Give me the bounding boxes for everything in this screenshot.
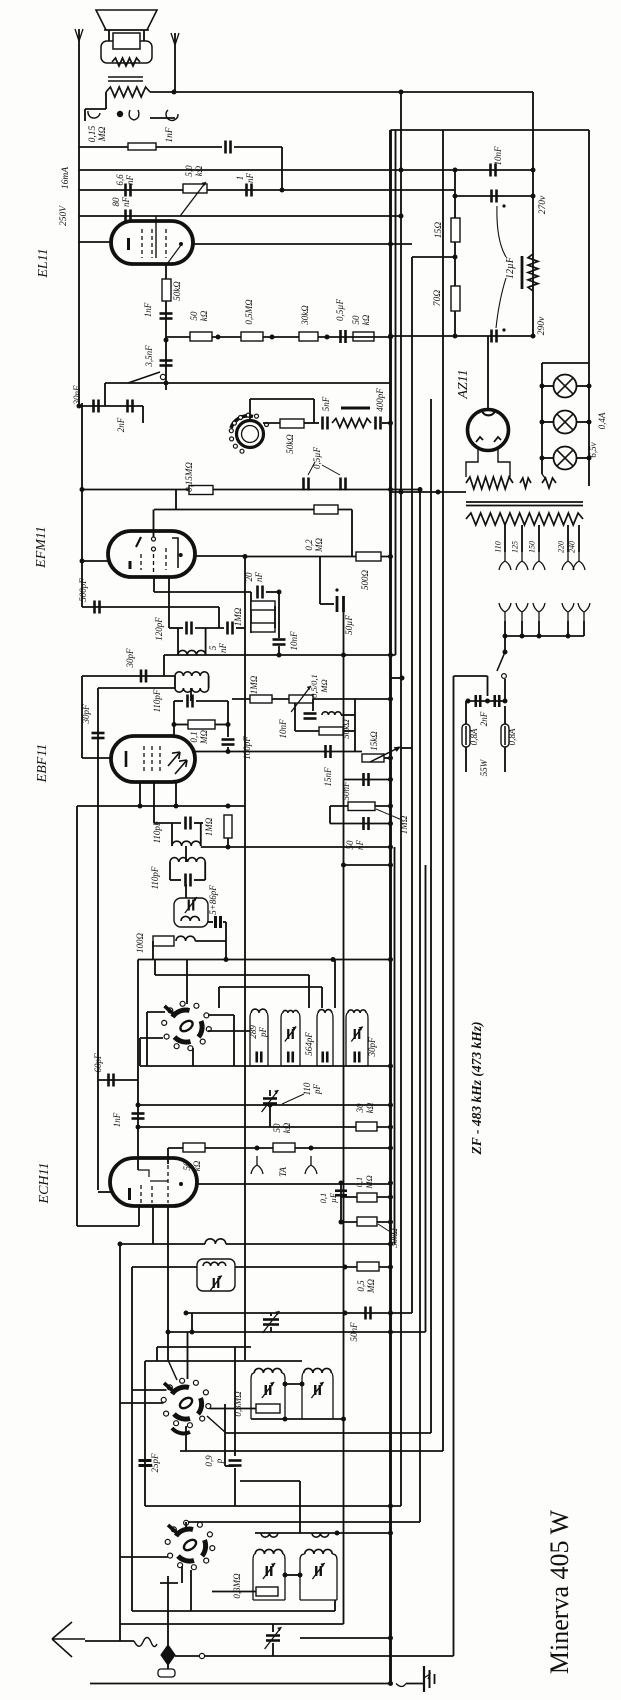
magic eye target outer [237, 421, 264, 448]
wire 50uF branch [319, 557, 321, 605]
inductor IF2 coil [170, 858, 205, 862]
switch wafer 1 contact 9 [194, 1003, 199, 1008]
tube ECH11 envelope [110, 1158, 197, 1206]
switch wafer 1 rotor arc 1 [173, 1010, 190, 1017]
svg-text:0,2: 0,2 [304, 539, 314, 551]
magic eye dot 1 [240, 449, 244, 453]
wire 235 drop [234, 1347, 236, 1456]
capacitor osc coil box 1 trimmer [266, 1385, 271, 1395]
svg-text:2nF: 2nF [479, 711, 489, 726]
node 1222 rail [388, 1220, 393, 1225]
switch wafer 2 contact 2 [200, 1416, 205, 1421]
node 1244 rail [388, 1242, 393, 1247]
svg-text:5nF: 5nF [321, 396, 331, 411]
node nfb 327 [325, 335, 330, 340]
switch wafer 1 rotor tick [165, 1006, 174, 1014]
svg-text:564pF: 564pF [304, 1032, 314, 1056]
node 270V right [531, 194, 536, 199]
wire IF4 stem [190, 688, 192, 701]
resistor 100 Ohm [153, 936, 174, 946]
node 1197 rail [388, 1195, 393, 1200]
wire EBF pin 2 [153, 782, 155, 823]
inductor osc tank [203, 1262, 226, 1266]
svg-text:MΩ: MΩ [364, 1175, 374, 1189]
svg-text:1nF: 1nF [143, 302, 153, 317]
resistor 1MOhm if vert [224, 815, 232, 838]
wire 0,9p lower [234, 1468, 236, 1506]
wire lamp 2 right [577, 421, 590, 423]
svg-text:110: 110 [494, 541, 503, 552]
wire row 1267 [132, 1266, 197, 1268]
EL11 grid dash 1 [141, 229, 143, 258]
wire 50nF row [344, 779, 391, 781]
node selector 539 [537, 634, 542, 639]
wire left rail EFM segment [81, 403, 83, 607]
wire wafer2 bottom diag [207, 1416, 226, 1433]
wire IF1 cap right [194, 822, 203, 824]
wire ant coil row [255, 1532, 391, 1534]
node mains a [466, 699, 471, 704]
capacitor 100pF [222, 740, 235, 745]
svg-text:EFM11: EFM11 [34, 526, 49, 569]
svg-text:150: 150 [528, 541, 537, 553]
capacitor 12uF lower [492, 330, 497, 343]
node 1506 rail [388, 1504, 393, 1509]
wire ant box1 bottom [253, 1599, 285, 1601]
svg-text:MΩ: MΩ [199, 730, 209, 745]
wire corner down to 5nF row [313, 399, 315, 423]
switch wafer 2 rotor arc 3 [174, 1414, 190, 1419]
wire IF2 stem [185, 846, 187, 862]
switch mains lever [497, 652, 505, 671]
switch wafer 1 rotor arc 2 [199, 1021, 203, 1037]
wire wafer1 bottom lead [192, 1048, 194, 1066]
filter choke core bar [521, 256, 524, 289]
wire 1M pair right [274, 606, 276, 628]
wire lamp top [542, 362, 589, 364]
connector tap fork 240 [573, 552, 585, 570]
wire ant box2 bottom [300, 1599, 337, 1601]
svg-text:10nF: 10nF [493, 146, 503, 166]
node 1313 186 [184, 1311, 189, 1316]
svg-text:Minerva 405 W: Minerva 405 W [545, 1509, 574, 1674]
connector tap fork 110 [499, 552, 511, 570]
plus sign 12uF upper [502, 204, 505, 207]
wire NFB row [166, 336, 391, 338]
wire jack drop [84, 109, 86, 121]
capacitor 25pF [139, 1461, 152, 1466]
arrester block [158, 1669, 175, 1677]
capacitor 30pF b [92, 733, 105, 738]
node 290V at 390 [388, 334, 393, 339]
wire antenna coil box 1 right side [283, 1554, 285, 1600]
inductor antenna coil box 1 [255, 1549, 283, 1554]
wire box bottom row [251, 1418, 343, 1420]
node 1332 rail [388, 1330, 393, 1335]
svg-text:120pF: 120pF [154, 617, 164, 641]
node 15k rail [388, 756, 393, 761]
fuse a inner bar [465, 726, 467, 745]
node nfb 272 [270, 335, 275, 340]
capacitor 10nF [491, 164, 496, 177]
resistor 50 kOhm nfb [190, 332, 212, 341]
resistor 0,5MOhm [241, 332, 263, 341]
wire selector down [504, 636, 506, 652]
wire wafer1 left lead b [140, 1037, 163, 1039]
wire left rail top segment [78, 29, 80, 406]
wire wafer3 left lead [120, 1556, 168, 1558]
wire IF1 cap row [154, 822, 181, 824]
leader 30k ech [378, 1224, 392, 1233]
resistor 0,3MOhm osc [256, 1404, 280, 1413]
wire padder third bottom [317, 1065, 333, 1067]
wire rail 431 [430, 399, 432, 1433]
wire row 1127 [138, 1126, 391, 1128]
node ta 2 [309, 1146, 314, 1151]
svg-text:nF: nF [121, 197, 131, 208]
wire det box bottom [295, 730, 319, 732]
resistor 30kOhm avc [356, 1122, 377, 1131]
EFM11 grid dash 3 [165, 548, 167, 570]
svg-text:110pF: 110pF [150, 866, 160, 889]
wire 30nF row [79, 405, 143, 407]
connector selector fork x522 [516, 603, 528, 621]
resistor 500 Ohm [356, 552, 381, 561]
EL11 cathode bar [127, 238, 130, 250]
svg-text:0,5/0,1: 0,5/0,1 [309, 674, 319, 698]
arrow speaker terminal [171, 33, 179, 45]
wire EBF cathode row [82, 757, 111, 759]
wire tap 220 [567, 525, 569, 552]
node avc left rail [80, 487, 85, 492]
svg-text:30pF: 30pF [367, 1037, 377, 1058]
wire screen drop [165, 264, 167, 340]
svg-text:0,3MΩ: 0,3MΩ [232, 1573, 242, 1599]
node lamp 1 r [587, 384, 592, 389]
wire wafer1 left drop a [146, 1012, 148, 1066]
connector TA fork 2 [305, 1156, 317, 1174]
node nfb 390 [388, 335, 393, 340]
svg-text:289: 289 [248, 1025, 258, 1039]
svg-text:MΩ: MΩ [319, 679, 329, 693]
wire tap 110 [504, 525, 506, 552]
capacitor 50uF plate 2 [342, 596, 345, 612]
wire arrester right [175, 1655, 199, 1657]
trimmer box outline [174, 898, 208, 927]
ECH11 cathode bar [128, 1188, 131, 1200]
wire row 1105 [138, 1104, 391, 1106]
svg-text:50kΩ: 50kΩ [341, 719, 351, 739]
capacitor 30pF a [141, 670, 146, 683]
node selector 522 [520, 634, 525, 639]
wire antenna coil box 1 left side [253, 1554, 255, 1600]
capacitor 10nF det [304, 714, 317, 719]
svg-text:250V: 250V [59, 205, 69, 226]
potentiometer 5,0 kOhm [183, 184, 207, 193]
node 1332 192 [190, 1330, 195, 1335]
node 678 [400, 676, 405, 681]
inductor IF3 winding [178, 650, 206, 655]
switch wafer 1 contact 6 [162, 1020, 167, 1025]
node det row rail [388, 697, 393, 702]
wire 0,1M row [341, 1196, 391, 1198]
wire rail 443 [442, 130, 444, 1451]
wire lamp 3 right [577, 457, 590, 459]
capacitor 0,1uF [335, 1191, 347, 1196]
wire det box left [294, 703, 296, 731]
wire 110pF left drop [173, 701, 175, 736]
wire ECH grid drop [137, 960, 139, 1171]
EBF11 grid dash 1 [143, 746, 145, 772]
wire row 959 [138, 959, 391, 961]
node 806 176 [174, 804, 179, 809]
capacitor 60pF [109, 1074, 114, 1087]
wire wafer1 right lead b [208, 1030, 250, 1032]
EL11 grid lead [155, 216, 157, 258]
wire IF4 left [174, 676, 176, 688]
wire row 1313 [186, 1312, 412, 1314]
wire IF2 to box [185, 884, 187, 898]
switch mains contact [502, 674, 507, 679]
node 1638 rail [388, 1636, 393, 1641]
svg-text:MΩ: MΩ [366, 1279, 376, 1294]
svg-text:30: 30 [355, 1103, 365, 1114]
svg-text:nF: nF [254, 572, 264, 583]
node 865 343 [341, 863, 346, 868]
wire ech pin k [138, 1206, 140, 1226]
capacitor 10nF efm [273, 640, 286, 645]
EL11 anode dot [179, 242, 183, 246]
EFM11 eye electrode 1 [152, 537, 156, 541]
wire 655 left corner [163, 655, 165, 676]
wire IF2 left [169, 862, 171, 880]
svg-text:kΩ: kΩ [282, 1122, 292, 1133]
wire switch to cap [504, 679, 506, 701]
capacitor trimmer if [189, 900, 194, 911]
svg-text:1: 1 [235, 176, 245, 181]
switch wafer 3 rotor arc 2 [202, 1540, 206, 1556]
capacitor 0,9pF [229, 1461, 242, 1466]
svg-text:ZF - 483 kHz (473 kHz): ZF - 483 kHz (473 kHz) [469, 1022, 484, 1156]
svg-text:110pF: 110pF [152, 689, 162, 712]
wire wafer2 left lead [132, 1389, 167, 1391]
wire AZ11 B+ stem [487, 336, 489, 410]
svg-text:125: 125 [511, 541, 520, 553]
wire padder 289pF right side [267, 1013, 268, 1066]
wire IF1 right [200, 823, 202, 846]
node 1244 120 [118, 1242, 123, 1247]
output transformer core line 1 [108, 76, 143, 78]
output transformer primary [106, 87, 150, 97]
switch wafer 3 contact 10 [207, 1532, 212, 1537]
wire coil to corner [195, 940, 226, 942]
svg-text:TA: TA [278, 1167, 288, 1177]
wire IF1 left [171, 823, 173, 846]
capacitor osc coil box 2 trimmer [315, 1385, 320, 1395]
capacitor 6,6nF [126, 184, 131, 197]
wire speaker right lead [143, 30, 145, 41]
antenna coil box 2 trimmer arrow [312, 1563, 324, 1579]
node 30nF left [77, 404, 82, 409]
capacitor 2nF mains a [476, 695, 481, 707]
capacitor 500pF [95, 601, 100, 614]
svg-text:12µF: 12µF [505, 256, 516, 279]
switch tone lever [128, 372, 160, 383]
wire lamp 1 left [542, 385, 554, 387]
svg-text:kΩ: kΩ [361, 314, 371, 325]
inductor antenna squiggle [134, 1638, 157, 1647]
wire ECH anode row [197, 1183, 391, 1185]
EFM11 cathode bar [129, 561, 132, 569]
osc coil box 1 trimmer arrow [262, 1382, 274, 1398]
wire 50nFb loop [329, 806, 331, 824]
switch wafer 3 rotor arc 3 [178, 1556, 194, 1561]
capacitor 20nF [258, 586, 263, 599]
node lamp 2 r [587, 420, 592, 425]
wire wafer1 right drop [233, 1015, 235, 1066]
switch wafer 2 rotor arc 1 [172, 1387, 189, 1394]
wire anode B+ row [245, 556, 391, 558]
svg-text:15nF: 15nF [323, 767, 333, 787]
headphone jack hook 1 [88, 111, 100, 118]
switch wafer 1 contact 5 [164, 1034, 169, 1039]
node 865 rail [388, 863, 393, 868]
node 270V left [453, 194, 458, 199]
node eye row rail [388, 421, 393, 426]
wire row 1638 [300, 1637, 391, 1639]
node anode rail [388, 1181, 393, 1186]
inductor padder 564pF [283, 1010, 298, 1013]
inductor osc feedback [205, 1239, 226, 1244]
wire wafer3 right lead [212, 1591, 256, 1593]
svg-text:240: 240 [568, 541, 577, 553]
wire rail 120 [119, 1244, 121, 1641]
node B+ rail top corner [399, 90, 404, 95]
transformer HV winding [466, 477, 513, 489]
wire tone row right [166, 382, 391, 384]
inductor det coil [322, 712, 341, 715]
node 50nFb rail [388, 821, 393, 826]
wire 30k row [341, 1221, 391, 1223]
headphone jack hook 2 [166, 110, 178, 120]
wire 50k to 5nF [304, 422, 319, 424]
node diode 228 [226, 749, 231, 754]
capacitor 5nF eye [323, 417, 328, 430]
svg-text:MΩ: MΩ [98, 126, 108, 142]
wire 10nF bottom [278, 646, 280, 655]
node 1419 343 [341, 1417, 346, 1422]
resistor 1MOhm b [251, 623, 275, 632]
wire row 1148 [168, 1147, 391, 1149]
node 290V rail [453, 334, 458, 339]
wire wafer2 right link [225, 1465, 235, 1467]
wire fuse2 bottom [504, 747, 506, 772]
capacitor 1nF anode [247, 184, 252, 197]
wire 1347 drop [156, 1347, 158, 1361]
switch wafer 3 center oval [182, 1538, 198, 1553]
wire antenna coil box 2 left side [300, 1554, 305, 1600]
svg-text:0,15MΩ: 0,15MΩ [184, 462, 194, 492]
svg-text:0,5MΩ: 0,5MΩ [244, 299, 254, 325]
EBF11 cathode bar [125, 751, 128, 767]
tuning antenna arrow [265, 1627, 282, 1649]
switch wafer 2 contact 4 [174, 1421, 179, 1426]
resistor 30kOhm ech [357, 1217, 377, 1226]
wire wafer2 lead to row1332 [187, 1332, 189, 1379]
inductor padder third [318, 1010, 332, 1013]
node lamp 2 l [540, 420, 545, 425]
wire tone row [105, 382, 166, 384]
wire wafer2 bottom lead b [185, 1426, 187, 1451]
svg-text:0,5: 0,5 [356, 1280, 366, 1292]
node ant 285 [283, 1573, 288, 1578]
wire padder 30pF left side [346, 1013, 348, 1066]
wire 0,1M left [174, 724, 188, 726]
wire row 688 [98, 687, 175, 689]
AZ11 filament check 1 [476, 437, 483, 442]
svg-text:1MΩ: 1MΩ [233, 607, 243, 626]
wire chassis corner row [77, 1225, 139, 1227]
EBF11 diode plate 1 [168, 752, 180, 766]
node 492 401 [399, 490, 404, 495]
magic eye dot 6 [239, 416, 243, 420]
wire lamp rail left [541, 363, 543, 474]
resistor 0,15 MOhm [128, 143, 156, 150]
node 959 390 [388, 957, 393, 962]
switch wafer 2 contact 7 [167, 1385, 172, 1390]
wire row 975 drop [308, 975, 310, 1008]
wire EFM grid stem [153, 510, 155, 538]
svg-text:0,9: 0,9 [204, 1455, 214, 1467]
node 1105 138 [136, 1103, 141, 1108]
wire 2nF to eye row [142, 406, 144, 423]
capacitor 0,5uF [341, 330, 346, 343]
resistor 50kOhm det [319, 727, 343, 735]
resistor 50 kOhm b+ [353, 332, 374, 341]
wire padder 30pF bottom [346, 1065, 368, 1067]
wire row 1624 [120, 1623, 344, 1625]
node 1148 rail [388, 1146, 393, 1151]
switch wafer 2 contact 3 [187, 1423, 192, 1428]
wire wafer3 bottom lead b [160, 1582, 178, 1584]
switch wafer 3 rotor tick [168, 1525, 177, 1533]
svg-text:EBF11: EBF11 [35, 744, 50, 784]
wire 15k right [384, 757, 391, 759]
svg-text:30pF: 30pF [125, 648, 135, 669]
wire box1 to box2 [285, 1383, 302, 1385]
switch wafer 1 contact 4 [174, 1044, 179, 1049]
svg-text:kΩ: kΩ [192, 1160, 202, 1171]
ECH11 anode dot [179, 1182, 183, 1186]
wire AZ11 anode lead b [498, 448, 510, 477]
svg-text:15kΩ: 15kΩ [369, 731, 379, 751]
transformer core bottom [466, 505, 583, 507]
wire eye row [263, 422, 280, 424]
pot 15k wiper arrow [395, 747, 401, 751]
AZ11 filament check 2 [494, 437, 501, 442]
capacitor tuning mixer [263, 1099, 277, 1104]
svg-text:5+86pF: 5+86pF [208, 885, 218, 915]
wire row 655 [164, 654, 396, 656]
wire IF4 right [208, 676, 210, 688]
node 1M rail [388, 804, 393, 809]
plus sign 12uF lower [502, 328, 505, 331]
node EFM cathode rail [80, 559, 85, 564]
capacitor 110pF top [188, 695, 193, 708]
wire 10nF drop [278, 592, 280, 638]
wire IF1 to 1M [201, 846, 391, 848]
osc tank arrow [210, 1276, 221, 1291]
